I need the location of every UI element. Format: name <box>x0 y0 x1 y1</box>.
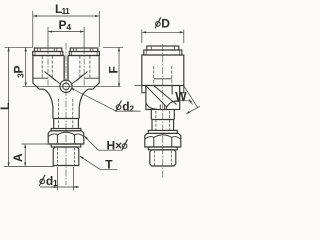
dimension phi-d1 line <box>40 186 79 188</box>
dimension F line <box>118 48 120 87</box>
left port centerline <box>47 48 49 86</box>
side view thread root hidden lines <box>154 151 171 166</box>
side view bore hidden lines <box>153 66 155 85</box>
svg-text:F: F <box>107 66 121 73</box>
neck lower <box>54 119 79 129</box>
neck hidden bore lines <box>58 99 72 129</box>
junction outer circle <box>60 80 72 92</box>
dimension L extension top <box>5 46 34 48</box>
Y body right flange <box>88 88 93 90</box>
neck upper <box>53 107 79 119</box>
svg-text:W: W <box>175 89 187 103</box>
side view threaded stud <box>150 150 176 166</box>
dimension A extension top <box>22 143 53 145</box>
dimension P4 extension lines <box>48 27 84 48</box>
svg-text:P4: P4 <box>59 18 72 32</box>
dimension L11 line <box>33 15 99 17</box>
dimension A line <box>24 145 26 167</box>
label phi-d2 text <box>116 101 122 112</box>
branch boss left corner arc <box>146 104 157 110</box>
branch center horizontal line <box>23 85 121 87</box>
left port collar <box>33 52 63 56</box>
side view hex <box>145 133 181 147</box>
right port cap plate <box>70 48 98 52</box>
thread root hidden lines <box>58 148 75 165</box>
side view branch boss <box>146 86 180 110</box>
label phi-d2 leader <box>71 88 116 111</box>
branch boss inner vertical <box>171 86 173 95</box>
dimension phi-D text <box>155 17 161 28</box>
side view washer above hex <box>148 130 177 133</box>
dimension W underline <box>174 100 191 102</box>
side view neck lower <box>152 120 174 131</box>
Y body left slope <box>44 89 53 107</box>
label phi-d2 underline <box>116 110 141 112</box>
branch centerline horizontal <box>135 85 185 87</box>
right port bore hidden lines <box>79 56 81 78</box>
branch boss slant wall 2 <box>154 86 177 105</box>
dimension phi-D extension lines <box>142 30 184 44</box>
dimension phi-D line <box>142 31 183 33</box>
dimension L line <box>8 48 10 166</box>
svg-text:L: L <box>0 103 12 110</box>
svg-text:d1: d1 <box>46 174 58 188</box>
side view collar <box>144 50 182 55</box>
side view right corner tab <box>180 86 184 93</box>
svg-text:L11: L11 <box>55 2 70 16</box>
branch boss bore gap <box>160 105 164 110</box>
label T underline <box>100 168 118 170</box>
Y body left flange <box>39 88 44 90</box>
side view neck hidden bore lines <box>156 111 170 130</box>
side view left corner tab <box>142 86 146 93</box>
bottom extension line <box>4 166 54 168</box>
Y internal slant walls right <box>71 72 88 85</box>
branch boss right dome arc <box>166 101 180 109</box>
svg-text:3P: 3P <box>12 65 26 78</box>
svg-text:d2: d2 <box>122 99 134 113</box>
left port cap plate <box>34 48 62 52</box>
dimension W arrowhead <box>189 99 193 104</box>
side view body <box>142 55 184 86</box>
junction inner circle <box>63 83 70 90</box>
threaded stud <box>53 147 79 166</box>
dimension F extension top <box>103 46 123 48</box>
svg-text:T: T <box>105 158 113 172</box>
svg-text:D: D <box>161 16 170 30</box>
dimension phi-d1 text <box>39 175 45 186</box>
label HxPhi leader <box>85 136 99 150</box>
left port body <box>33 56 64 90</box>
center gap between ports <box>64 56 68 81</box>
label T leader <box>80 156 100 169</box>
main centerline <box>65 43 67 185</box>
branch boss slant wall 1 <box>146 86 167 108</box>
side view neck upper <box>151 110 174 120</box>
dimension L11 extension lines <box>33 11 100 47</box>
dimension P4 line <box>49 31 84 33</box>
dimension W lower diagonal <box>186 106 200 113</box>
side view washer below hex <box>148 147 177 150</box>
right port inner shelf <box>84 77 99 79</box>
Y internal slant walls left <box>45 72 62 85</box>
hex nut front view <box>48 131 84 144</box>
dimension W upper diagonal <box>184 86 198 108</box>
svg-text:H×: H× <box>107 138 122 152</box>
right port body <box>68 56 99 90</box>
side view centerline <box>162 44 164 178</box>
svg-text:A: A <box>11 153 25 162</box>
side view cap plate <box>147 46 179 50</box>
washer above hex <box>51 129 81 131</box>
left port inner shelf <box>34 77 49 79</box>
Y body right slope <box>79 89 88 107</box>
washer below hex <box>51 144 81 147</box>
right port collar <box>69 52 99 56</box>
right port centerline <box>83 48 85 86</box>
dimension phi-d1 extension lines <box>58 167 74 191</box>
label HxPhi underline <box>98 149 122 151</box>
side view inner shelf <box>154 78 172 80</box>
left port bore hidden lines <box>41 56 43 78</box>
dimension P3 line <box>25 48 27 86</box>
